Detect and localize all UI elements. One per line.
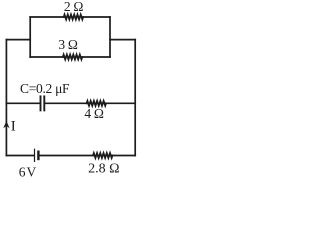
svg-text:2.8 Ω: 2.8 Ω — [88, 161, 119, 176]
svg-text:6 V: 6 V — [19, 164, 37, 179]
svg-text:4 Ω: 4 Ω — [84, 106, 104, 121]
label 6 V — [19, 164, 37, 179]
svg-text:2 Ω: 2 Ω — [64, 0, 84, 14]
resistor R 4ohm zigzag — [87, 101, 106, 106]
resistor R 2ohm zigzag — [64, 15, 83, 20]
wire inner box right vertical — [109, 17, 111, 57]
wire middle branch right segment — [106, 102, 135, 104]
wire right stub — [110, 39, 135, 41]
wire middle branch between capacitor and 4ohm — [45, 102, 87, 104]
label 2.8 ohm — [88, 161, 119, 176]
current arrow I on left wire pointing up — [3, 121, 9, 128]
wire bottom branch right segment — [112, 155, 135, 157]
label 3 ohm — [58, 37, 78, 52]
svg-text:I: I — [11, 119, 16, 135]
wire inner box left vertical — [29, 17, 31, 57]
capacitor C right plate — [43, 96, 45, 110]
label I — [11, 119, 16, 135]
label C=0.2 uF — [20, 81, 70, 96]
battery long plate — [34, 149, 36, 161]
wire outer right vertical — [134, 40, 136, 156]
battery short plate — [37, 152, 39, 159]
svg-text:3 Ω: 3 Ω — [58, 37, 78, 52]
capacitor C left plate — [40, 96, 42, 110]
wire 3ohm branch left segment — [30, 56, 63, 58]
svg-text:C=0.2 μF: C=0.2 μF — [20, 81, 70, 96]
label 4 ohm — [84, 106, 104, 121]
label 2 ohm — [64, 0, 84, 14]
resistor R 2.8ohm zigzag — [93, 153, 112, 158]
wire top branch left segment — [30, 16, 64, 18]
wire 3ohm branch right segment — [82, 56, 110, 58]
wire bottom branch left of battery — [6, 155, 34, 157]
wire outer left vertical — [5, 40, 7, 156]
wire bottom branch between battery and 2.8ohm — [40, 155, 94, 157]
resistor R 3ohm zigzag — [63, 55, 82, 60]
wire left stub — [6, 39, 30, 41]
wire middle branch left of capacitor — [6, 102, 39, 104]
wire top branch right segment — [83, 16, 110, 18]
